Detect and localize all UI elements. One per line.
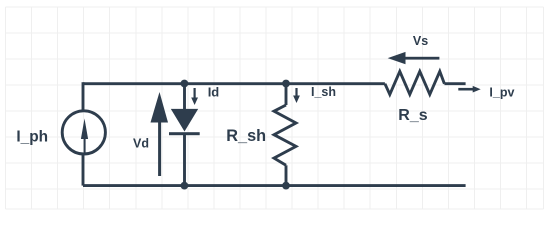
label I_ph (16, 129, 48, 146)
I_sh arrow (293, 88, 300, 103)
Id arrow (191, 88, 198, 105)
current source I_ph circle (62, 111, 105, 154)
resistor R_s zigzag (385, 71, 445, 94)
svg-text:Id: Id (208, 84, 220, 99)
wire diode branch top (183, 84, 186, 110)
node junction dot top (diode) (181, 80, 189, 88)
svg-text:I_ph: I_ph (16, 129, 48, 146)
Vs arrow (388, 52, 440, 64)
current source I_ph internal arrow (81, 119, 88, 155)
diode D (169, 109, 200, 135)
Vd arrow (151, 92, 169, 176)
svg-text:Vs: Vs (413, 34, 428, 48)
label Vs (413, 34, 428, 48)
label Vd (133, 136, 149, 150)
svg-text:I_sh: I_sh (311, 85, 336, 99)
resistor R_sh branch top wire (285, 84, 288, 106)
label R_s (398, 107, 427, 124)
wire bottom horizontal (83, 184, 466, 187)
resistor R_sh zigzag (274, 105, 296, 165)
wire left vertical (top of current source) (82, 82, 85, 110)
label R_sh (226, 127, 266, 145)
node junction dot top (R_sh) (282, 80, 290, 88)
svg-text:R_s: R_s (398, 107, 427, 124)
wire top-right after R_s (444, 82, 465, 85)
I_pv arrow (458, 86, 480, 93)
node junction dot bottom (R_sh) (282, 182, 290, 190)
label I_pv (489, 86, 514, 100)
resistor R_sh branch bottom wire (285, 165, 288, 185)
label Id (208, 84, 220, 99)
svg-text:Vd: Vd (133, 136, 149, 150)
svg-text:R_sh: R_sh (226, 127, 266, 145)
wire top horizontal (83, 82, 385, 85)
wire left vertical (bottom of current source) (82, 155, 85, 186)
label I_sh (311, 85, 336, 99)
wire diode branch bottom (183, 134, 186, 186)
svg-text:I_pv: I_pv (489, 86, 514, 100)
node junction dot bottom (diode) (181, 182, 189, 190)
